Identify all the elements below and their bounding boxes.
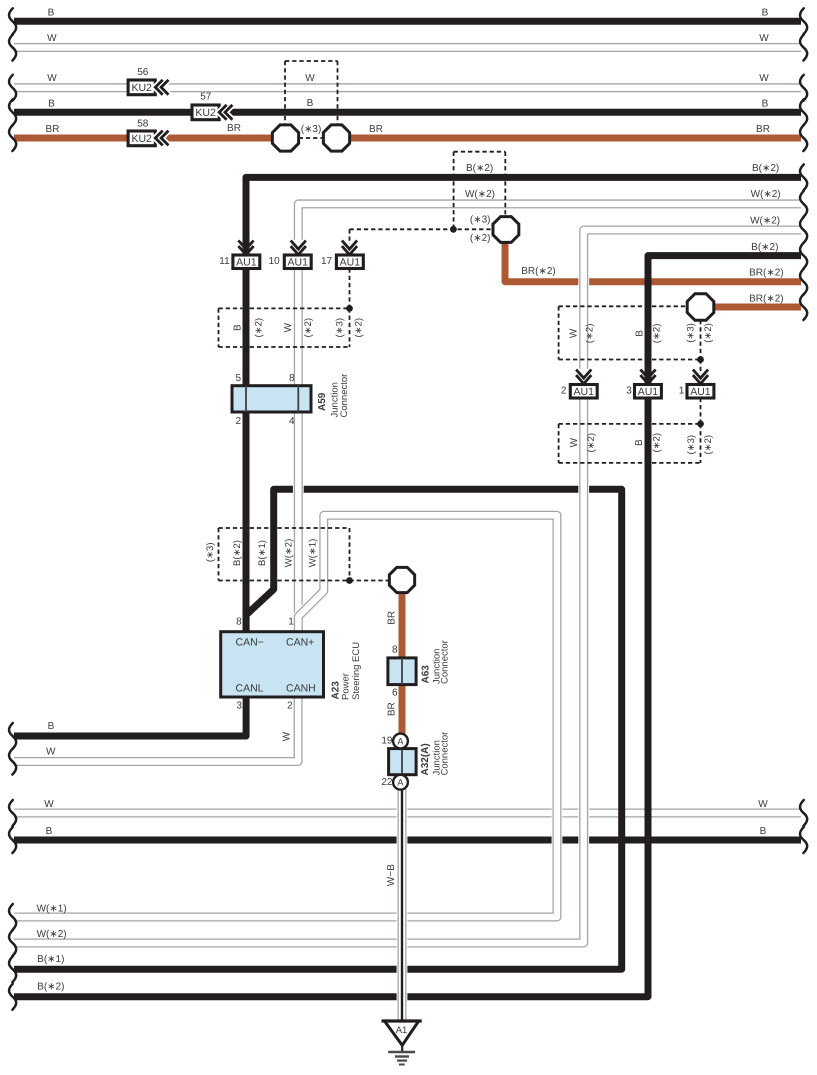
ECU A23 Power Steering	[221, 632, 324, 697]
svg-text:(∗2): (∗2)	[354, 318, 365, 338]
break symbol right B top	[800, 8, 807, 34]
chevron arrows connector 57	[219, 105, 232, 120]
svg-text:B: B	[634, 439, 645, 446]
svg-text:(∗3): (∗3)	[686, 323, 697, 343]
svg-text:B: B	[48, 99, 55, 110]
break symbol right W(*2)a	[800, 191, 807, 217]
splice octagon 3 B/W/BR junction	[493, 217, 519, 243]
svg-text:KU2: KU2	[131, 133, 152, 145]
svg-text:W: W	[305, 73, 315, 84]
svg-text:17: 17	[321, 256, 333, 267]
svg-text:AU1: AU1	[690, 386, 711, 398]
svg-text:W(∗1): W(∗1)	[37, 903, 67, 914]
svg-text:BR(∗2): BR(∗2)	[749, 294, 784, 305]
chevron arrows AU1 pin 11	[238, 241, 253, 255]
break symbol left W top2	[9, 75, 16, 101]
svg-text:B(∗2): B(∗2)	[466, 163, 493, 174]
connector AU1 pin 3	[635, 385, 662, 399]
svg-text:B(∗2): B(∗2)	[751, 242, 778, 253]
dashed wire below AU1 1	[700, 398, 702, 424]
break symbol right B bus	[800, 827, 807, 853]
svg-text:B: B	[46, 826, 53, 837]
svg-text:W: W	[44, 799, 54, 810]
svg-text:BR: BR	[756, 124, 770, 135]
svg-text:(∗3): (∗3)	[205, 543, 216, 563]
svg-text:AU1: AU1	[574, 386, 595, 398]
dashed wire from A23 box to octagon splice	[350, 580, 389, 582]
svg-text:A59: A59	[317, 392, 328, 411]
svg-text:A1: A1	[396, 1025, 408, 1036]
svg-text:Connector: Connector	[339, 374, 350, 418]
svg-text:3: 3	[626, 386, 632, 397]
svg-text:22: 22	[381, 777, 393, 788]
svg-text:W: W	[569, 437, 580, 447]
svg-text:56: 56	[137, 67, 149, 78]
svg-text:(∗3): (∗3)	[334, 318, 345, 338]
svg-text:BR(∗2): BR(∗2)	[749, 268, 784, 279]
break symbol left B bus	[9, 827, 16, 853]
svg-text:58: 58	[137, 119, 149, 130]
wire BR top bus left segment	[14, 135, 287, 142]
dashed variant box right group upper	[559, 305, 645, 307]
junction dot on A23 dashed box corner	[346, 577, 353, 584]
svg-text:5: 5	[235, 373, 241, 384]
break symbol left W top1	[9, 35, 16, 61]
svg-text:A63: A63	[421, 665, 432, 684]
svg-text:W(∗2): W(∗2)	[750, 215, 780, 226]
junction dot top corner right dashed box lower	[697, 421, 704, 428]
svg-text:W(∗1): W(∗1)	[308, 539, 319, 568]
wire B bus mid full width	[14, 837, 801, 844]
break symbol right W(*2)b	[800, 217, 807, 243]
connector 56 KU2	[128, 80, 155, 95]
wire BR(*2) from right octagon splice	[714, 304, 801, 311]
svg-text:CANH: CANH	[286, 683, 316, 695]
junction dot lower corner right dashed box upper	[697, 356, 704, 363]
svg-text:BR: BR	[387, 611, 398, 625]
wire W from A23 CANH pin 2	[14, 697, 298, 762]
svg-text:2: 2	[561, 386, 567, 397]
break symbol left B(*2)	[9, 984, 16, 1010]
svg-text:W: W	[283, 322, 294, 332]
svg-text:Connector: Connector	[439, 732, 450, 776]
circle pin A 22 of A32(A)	[393, 775, 408, 790]
svg-text:KU2: KU2	[131, 82, 152, 94]
svg-text:BR: BR	[46, 124, 60, 135]
junction dot on A59 dashed box corner	[346, 305, 353, 312]
svg-text:8: 8	[392, 645, 398, 656]
svg-text:A32(A): A32(A)	[420, 743, 431, 775]
svg-text:A: A	[397, 777, 404, 787]
break symbol left B top	[9, 8, 16, 34]
connector AU1 pin 11	[233, 255, 260, 269]
break symbol right BR(*2)b	[800, 294, 807, 320]
connector 57 KU2	[192, 105, 219, 120]
break symbol left BR top	[9, 125, 16, 151]
break symbol left B(*1)	[9, 956, 16, 982]
wire B top bus 2	[14, 109, 801, 116]
svg-text:BR: BR	[369, 124, 383, 135]
break symbol right W top1	[800, 35, 807, 61]
svg-text:W: W	[281, 731, 292, 741]
splice octagon 2 on BR top bus	[323, 125, 349, 151]
chevron arrows AU1 pin 3	[640, 370, 655, 384]
svg-text:B: B	[635, 330, 646, 337]
dashed splice link between top octagons	[299, 137, 324, 139]
dashed variant box around A59 columns	[219, 307, 243, 309]
svg-text:6: 6	[392, 687, 398, 698]
svg-text:B(∗2): B(∗2)	[752, 163, 779, 174]
svg-text:BR: BR	[387, 702, 398, 716]
svg-text:B(∗1): B(∗1)	[257, 540, 268, 566]
svg-text:2: 2	[235, 416, 241, 427]
svg-text:1: 1	[288, 617, 294, 628]
dashed wire above AU1 17	[349, 229, 351, 255]
ground symbol A1	[382, 1021, 422, 1065]
svg-text:W: W	[47, 33, 57, 44]
wire W top bus 2	[14, 82, 801, 93]
dashed wire to splice (*3) net	[350, 228, 493, 230]
svg-text:(∗2): (∗2)	[703, 435, 714, 455]
svg-text:19: 19	[381, 735, 393, 746]
svg-text:W: W	[759, 73, 769, 84]
wire W bus mid full width	[14, 808, 801, 819]
svg-text:B: B	[762, 99, 769, 110]
wire W(*2) right vertical to bottom bus	[14, 230, 801, 943]
black stripe of W-B wire	[400, 789, 405, 1022]
svg-text:B(∗1): B(∗1)	[37, 954, 64, 965]
connector AU1 pin 17	[336, 255, 363, 269]
wire W(*1) loop to A23 pin 1	[14, 515, 557, 917]
svg-text:W: W	[46, 747, 56, 758]
break symbol right B top2	[800, 99, 807, 125]
svg-text:(∗2): (∗2)	[470, 233, 491, 244]
svg-text:W(∗2): W(∗2)	[284, 539, 295, 568]
junction connector A63	[388, 658, 416, 685]
break symbol left B mid	[9, 723, 16, 749]
svg-text:W: W	[758, 799, 768, 810]
wire B top bus 1	[14, 18, 801, 25]
svg-text:KU2: KU2	[195, 107, 216, 119]
break symbol left W(*1)	[9, 904, 16, 930]
svg-text:3: 3	[236, 700, 242, 711]
svg-text:W(∗2): W(∗2)	[751, 189, 781, 200]
wire B(*2) right vertical to bottom bus	[14, 256, 801, 997]
dashed variant box right group lower	[559, 423, 645, 425]
svg-text:(∗3): (∗3)	[686, 435, 697, 455]
svg-text:Power: Power	[341, 673, 352, 700]
svg-text:(∗2): (∗2)	[651, 433, 662, 453]
wire BR(*2) from splice to right	[505, 242, 801, 282]
splice octagon 5 above A63	[389, 567, 414, 592]
wire W-B to ground	[397, 789, 408, 1022]
wire BR A63 to A32(A)	[399, 592, 406, 741]
wire W top bus 1	[14, 42, 801, 53]
svg-text:AU1: AU1	[638, 386, 659, 398]
svg-text:8: 8	[236, 617, 242, 628]
svg-text:Steering ECU: Steering ECU	[351, 642, 362, 700]
break symbol right W bus	[800, 800, 807, 826]
dashed wire below AU1 17	[349, 269, 351, 309]
svg-text:BR: BR	[227, 123, 241, 134]
svg-text:(∗2): (∗2)	[303, 318, 314, 338]
svg-text:CAN+: CAN+	[286, 637, 314, 649]
svg-text:(∗2): (∗2)	[254, 318, 265, 338]
svg-text:(∗3): (∗3)	[301, 124, 322, 135]
svg-text:Connector: Connector	[439, 640, 450, 684]
chevron arrows connector 56	[155, 80, 168, 95]
svg-text:1: 1	[679, 386, 685, 397]
svg-text:BR(∗2): BR(∗2)	[521, 266, 556, 277]
svg-text:2: 2	[287, 700, 293, 711]
svg-text:B: B	[48, 721, 55, 732]
svg-text:A: A	[397, 737, 404, 747]
svg-text:W(∗2): W(∗2)	[37, 929, 67, 940]
svg-text:(∗3): (∗3)	[470, 215, 491, 226]
break symbol right B(*2)b	[800, 243, 807, 269]
dashed wire above AU1 1	[700, 360, 702, 385]
junction connector A59	[232, 386, 311, 412]
dashed variant box top-middle	[285, 60, 338, 62]
break symbol left W(*2)	[9, 930, 16, 956]
svg-text:4: 4	[289, 416, 295, 427]
wire W(*2) to A23 CAN+ pin 1	[298, 204, 801, 632]
break symbol right B(*2)	[800, 164, 807, 190]
connector AU1 pin 10	[284, 255, 311, 269]
svg-text:AU1: AU1	[288, 256, 309, 268]
dashed variant box top-right	[454, 151, 506, 153]
connector 58 KU2	[128, 131, 155, 146]
svg-text:CAN−: CAN−	[236, 637, 264, 649]
svg-text:(∗2): (∗2)	[585, 324, 596, 344]
svg-text:W: W	[759, 33, 769, 44]
svg-text:11: 11	[219, 256, 230, 267]
svg-text:(∗2): (∗2)	[651, 324, 662, 344]
svg-text:AU1: AU1	[340, 256, 361, 268]
svg-text:B: B	[760, 826, 767, 837]
svg-text:B: B	[762, 8, 769, 19]
splice octagon 4 on BR(*2)	[687, 294, 714, 321]
svg-text:B(∗2): B(∗2)	[37, 981, 64, 992]
svg-text:B(∗2): B(∗2)	[232, 540, 243, 566]
svg-text:CANL: CANL	[236, 683, 264, 695]
svg-text:AU1: AU1	[236, 256, 257, 268]
junction connector A32(A)	[389, 749, 417, 775]
svg-text:(∗2): (∗2)	[703, 323, 714, 343]
wire B from A23 CANL pin 3	[14, 697, 246, 736]
svg-text:W(∗2): W(∗2)	[465, 189, 495, 200]
chevron arrows AU1 pin 17	[342, 241, 357, 255]
svg-text:W: W	[568, 328, 579, 338]
svg-text:B: B	[48, 8, 55, 19]
chevron arrows AU1 pin 10	[291, 241, 306, 255]
svg-text:8: 8	[289, 373, 295, 384]
break symbol left B top2	[9, 99, 16, 125]
splice octagon 1 on BR top bus	[272, 125, 298, 151]
break symbol left W bus	[9, 800, 16, 826]
dashed variant box above A23	[219, 527, 243, 529]
svg-text:W−B: W−B	[386, 864, 397, 886]
connector AU1 pin 2	[570, 385, 597, 399]
break symbol right W top2	[800, 75, 807, 101]
svg-text:B: B	[307, 98, 314, 109]
svg-text:(∗2): (∗2)	[586, 433, 597, 453]
circle pin A 19 of A32(A)	[393, 734, 408, 749]
break symbol left W mid	[9, 749, 16, 775]
break symbol right BR top	[800, 125, 807, 151]
chevron arrows AU1 pin 2	[576, 370, 591, 384]
svg-text:B: B	[232, 324, 243, 331]
wire B(*2) to A23 CAN- pin 8	[246, 177, 801, 632]
chevron arrows connector 58	[155, 131, 168, 146]
wire B(*1) loop to A23 pin 8	[14, 489, 622, 969]
chevron arrows AU1 pin 1	[693, 370, 708, 384]
svg-text:10: 10	[269, 256, 281, 267]
svg-text:57: 57	[200, 92, 212, 103]
break symbol right BR(*2)a	[800, 269, 807, 295]
connector AU1 pin 1	[687, 385, 714, 399]
wire BR top bus right segment	[335, 135, 801, 142]
svg-text:W: W	[47, 73, 57, 84]
junction dot on dashed net left of octagon 3	[450, 226, 457, 233]
